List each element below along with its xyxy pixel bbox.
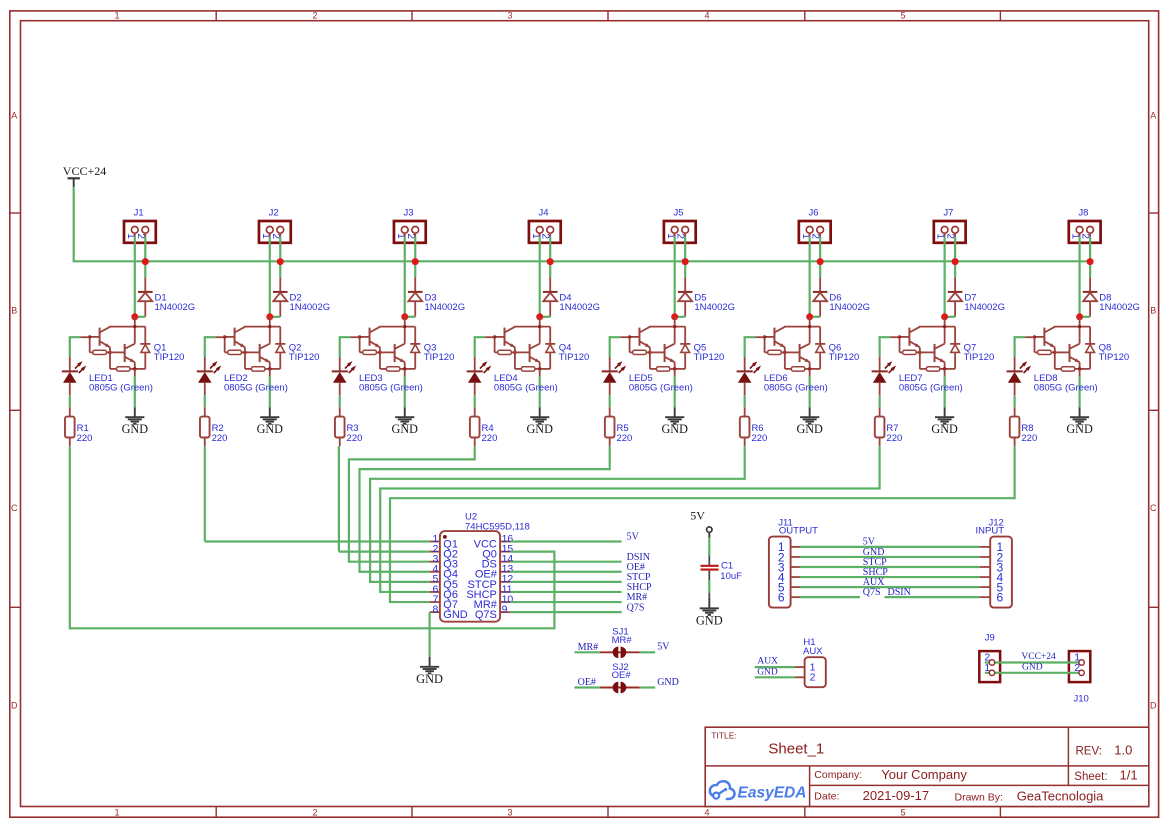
svg-text:220: 220 [212, 433, 228, 444]
svg-text:9: 9 [502, 603, 508, 615]
svg-text:2: 2 [1074, 662, 1080, 674]
svg-text:TIP120: TIP120 [964, 352, 995, 363]
svg-text:1.0: 1.0 [1114, 743, 1132, 758]
svg-text:2: 2 [810, 233, 821, 239]
svg-text:J3: J3 [404, 208, 414, 219]
svg-text:0805G (Green): 0805G (Green) [359, 383, 423, 394]
svg-text:6: 6 [778, 590, 785, 604]
svg-text:1N4002G: 1N4002G [424, 302, 465, 313]
svg-text:1: 1 [114, 10, 119, 20]
svg-text:Your Company: Your Company [881, 767, 967, 782]
svg-text:4: 4 [704, 808, 709, 818]
svg-text:2: 2 [945, 233, 956, 239]
svg-text:0805G (Green): 0805G (Green) [224, 383, 288, 394]
svg-text:1N4002G: 1N4002G [1099, 302, 1140, 313]
svg-text:GeaTecnologia: GeaTecnologia [1017, 789, 1104, 804]
svg-text:GND: GND [657, 677, 679, 688]
svg-text:GND: GND [1022, 663, 1043, 673]
svg-text:OE#: OE# [612, 670, 632, 681]
svg-text:2: 2 [810, 672, 816, 684]
svg-text:1/1: 1/1 [1120, 768, 1138, 783]
svg-text:Company:: Company: [814, 769, 862, 781]
svg-text:A: A [11, 111, 17, 121]
svg-text:TIP120: TIP120 [694, 352, 725, 363]
svg-text:2: 2 [312, 808, 317, 818]
svg-text:Q7S: Q7S [863, 587, 881, 598]
svg-text:2021-09-17: 2021-09-17 [863, 788, 930, 803]
svg-text:AUX: AUX [757, 657, 778, 667]
svg-text:1N4002G: 1N4002G [964, 302, 1005, 313]
svg-text:GND: GND [661, 422, 688, 436]
svg-text:0805G (Green): 0805G (Green) [1034, 383, 1098, 394]
svg-text:VCC+24: VCC+24 [1021, 652, 1056, 662]
svg-text:220: 220 [1021, 433, 1037, 444]
svg-text:0805G (Green): 0805G (Green) [764, 383, 828, 394]
svg-text:8: 8 [433, 603, 439, 615]
svg-text:0805G (Green): 0805G (Green) [89, 383, 153, 394]
svg-text:6: 6 [996, 590, 1003, 604]
svg-text:J6: J6 [808, 208, 818, 219]
svg-text:2: 2 [675, 233, 686, 239]
svg-text:5V: 5V [690, 509, 705, 523]
svg-text:5: 5 [900, 808, 905, 818]
svg-text:J5: J5 [673, 208, 683, 219]
svg-text:TIP120: TIP120 [1099, 352, 1130, 363]
svg-text:GND: GND [257, 422, 284, 436]
svg-text:5V: 5V [627, 532, 640, 543]
svg-text:D: D [11, 701, 18, 711]
svg-text:5: 5 [900, 10, 905, 20]
svg-text:2: 2 [540, 233, 551, 239]
svg-text:TIP120: TIP120 [559, 352, 590, 363]
svg-text:GND: GND [122, 422, 149, 436]
svg-text:C: C [1150, 503, 1157, 513]
svg-text:220: 220 [616, 433, 632, 444]
svg-text:GND: GND [392, 422, 419, 436]
svg-text:2: 2 [405, 233, 416, 239]
svg-text:1N4002G: 1N4002G [559, 302, 600, 313]
svg-text:GND: GND [757, 667, 778, 677]
svg-text:Q7S: Q7S [475, 609, 497, 621]
svg-text:GND: GND [796, 422, 823, 436]
svg-text:Drawn By:: Drawn By: [955, 792, 1003, 804]
svg-text:0805G (Green): 0805G (Green) [629, 383, 693, 394]
svg-text:J4: J4 [539, 208, 549, 219]
svg-text:220: 220 [77, 433, 93, 444]
svg-text:10uF: 10uF [720, 571, 742, 582]
svg-text:220: 220 [482, 433, 498, 444]
svg-text:J10: J10 [1074, 693, 1089, 704]
svg-text:TITLE:: TITLE: [711, 731, 737, 741]
svg-text:REV:: REV: [1076, 746, 1102, 758]
svg-text:J9: J9 [985, 633, 995, 644]
svg-text:GND: GND [696, 613, 723, 627]
svg-text:1N4002G: 1N4002G [694, 302, 735, 313]
svg-text:Sheet_1: Sheet_1 [768, 740, 824, 757]
svg-text:GND: GND [443, 609, 468, 621]
svg-text:1: 1 [114, 808, 119, 818]
svg-text:0805G (Green): 0805G (Green) [899, 383, 963, 394]
svg-text:2: 2 [1080, 233, 1091, 239]
svg-text:2: 2 [135, 233, 146, 239]
svg-text:J8: J8 [1078, 208, 1088, 219]
svg-text:1N4002G: 1N4002G [829, 302, 870, 313]
svg-text:B: B [1150, 306, 1156, 316]
svg-text:OUTPUT: OUTPUT [779, 526, 818, 537]
svg-text:74HC595D,118: 74HC595D,118 [465, 521, 530, 532]
svg-text:2: 2 [312, 10, 317, 20]
svg-text:INPUT: INPUT [976, 526, 1005, 537]
svg-text:4: 4 [704, 10, 709, 20]
svg-text:220: 220 [347, 433, 363, 444]
svg-text:VCC+24: VCC+24 [63, 164, 106, 178]
svg-text:B: B [11, 306, 17, 316]
svg-text:MR#: MR# [612, 635, 633, 646]
svg-text:TIP120: TIP120 [829, 352, 860, 363]
svg-text:GND: GND [527, 422, 554, 436]
svg-text:EasyEDA: EasyEDA [738, 785, 807, 802]
svg-text:Date:: Date: [814, 791, 839, 803]
svg-text:C: C [11, 503, 18, 513]
svg-text:220: 220 [886, 433, 902, 444]
svg-text:Q7S: Q7S [627, 602, 645, 613]
svg-text:MR#: MR# [578, 642, 599, 653]
svg-text:TIP120: TIP120 [289, 352, 320, 363]
svg-text:A: A [1150, 111, 1156, 121]
svg-text:TIP120: TIP120 [424, 352, 455, 363]
svg-text:J1: J1 [134, 208, 144, 219]
svg-text:GND: GND [931, 422, 958, 436]
svg-text:GND: GND [1066, 422, 1093, 436]
svg-text:D: D [1150, 701, 1157, 711]
svg-text:DSIN: DSIN [888, 587, 911, 598]
svg-text:220: 220 [751, 433, 767, 444]
svg-text:3: 3 [507, 10, 512, 20]
svg-text:0805G (Green): 0805G (Green) [494, 383, 558, 394]
svg-text:2: 2 [270, 233, 281, 239]
svg-text:1N4002G: 1N4002G [289, 302, 330, 313]
svg-text:GND: GND [416, 672, 443, 686]
svg-text:TIP120: TIP120 [154, 352, 185, 363]
svg-text:OE#: OE# [578, 677, 596, 688]
svg-text:3: 3 [507, 808, 512, 818]
svg-text:5V: 5V [657, 642, 670, 653]
svg-text:AUX: AUX [803, 646, 823, 657]
svg-text:Sheet:: Sheet: [1074, 771, 1107, 783]
svg-text:1N4002G: 1N4002G [155, 302, 196, 313]
svg-text:J2: J2 [269, 208, 279, 219]
svg-text:J7: J7 [943, 208, 953, 219]
svg-text:1: 1 [984, 662, 990, 674]
